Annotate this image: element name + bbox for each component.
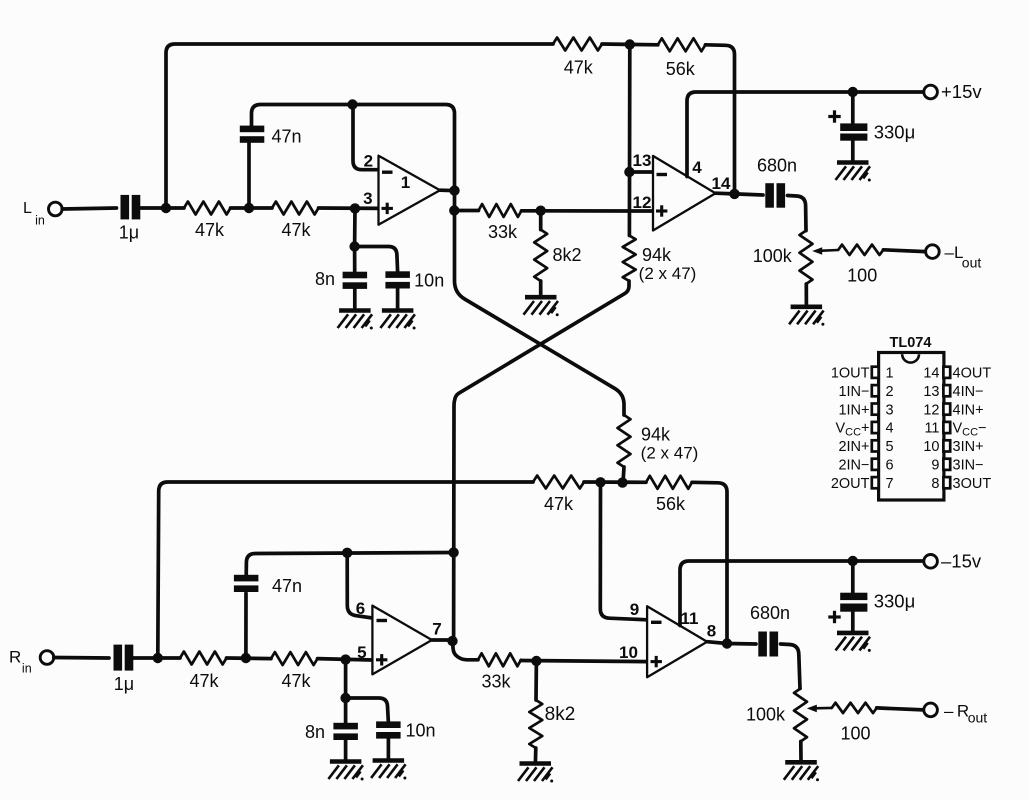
ground below 8k2 L (524, 297, 559, 316)
svg-text:94k: 94k (642, 245, 672, 265)
wire 56k down to output14 (705, 45, 734, 194)
wire between 47k resistors R (227, 656, 272, 660)
wire 680n to pot top (788, 196, 807, 231)
svg-text:10: 10 (619, 643, 638, 662)
wire 8k2 upper lead R (534, 661, 538, 700)
ground below pot L (789, 307, 824, 326)
capacitor 1u (left channel input) (121, 195, 141, 220)
svg-text:33k: 33k (488, 222, 518, 242)
capacitor 330u (top) (840, 123, 867, 140)
potentiometer 100k (R) (794, 689, 807, 742)
junction pin9 tap node (595, 477, 605, 487)
svg-text:94k: 94k (641, 425, 671, 445)
svg-text:in: in (35, 214, 45, 228)
wire 8n-B upper lead (344, 698, 348, 723)
svg-text:47k: 47k (544, 494, 574, 514)
svg-text:330μ: 330μ (874, 122, 916, 143)
svg-text:10n: 10n (405, 721, 435, 741)
svg-text:–15v: –15v (941, 551, 982, 572)
junction output pin7 node (447, 636, 457, 646)
svg-text:3: 3 (363, 189, 372, 208)
svg-text:1IN−: 1IN− (838, 384, 869, 400)
resistor 47k (R input second) (271, 652, 318, 665)
IC pin stub left 7 (872, 477, 879, 488)
resistor 8k2 (L) (534, 230, 547, 281)
capacitor 8n (R) (333, 723, 358, 740)
wire 1u to 47k R (133, 656, 180, 660)
junction 33k tap on output riser (449, 205, 459, 215)
wire 8k2 to ground R (534, 748, 538, 763)
svg-text:12: 12 (633, 193, 652, 212)
svg-text:9: 9 (630, 600, 639, 619)
svg-text:4IN−: 4IN− (953, 384, 984, 400)
wire 47k to 56k top rail (602, 42, 658, 46)
svg-text:100k: 100k (753, 246, 793, 266)
junction 8k2 node R (531, 656, 541, 666)
junction 47n tap node R (241, 653, 251, 663)
ground below pot R (784, 762, 819, 781)
wire 680n-B to pot top (781, 644, 801, 689)
svg-text:–L: –L (945, 243, 964, 262)
resistor 56k (bottom rail) (646, 476, 692, 489)
capacitor 47n (R) (234, 575, 259, 592)
svg-text:R: R (9, 648, 21, 667)
wire 47k to op-amp pin3 (319, 206, 379, 210)
wire pot bottom to ground L (804, 284, 808, 307)
resistor 33k (R) (478, 653, 521, 666)
svg-text:7: 7 (886, 476, 894, 492)
wire 47n-B top to rail toward riser (246, 553, 453, 577)
junction L input node (161, 203, 171, 213)
IC pin stub left 6 (872, 459, 879, 470)
wire 56k down to output8 (692, 482, 727, 643)
svg-text:2IN−: 2IN− (838, 458, 869, 474)
resistor 94k upper (2x47) (623, 236, 636, 282)
wire L_in to 1u cap (62, 208, 116, 209)
op-amp U1A (pins 2,3,1) (379, 156, 441, 225)
wire between 47k resistors (231, 206, 273, 210)
ground below 330u bottom (836, 633, 871, 652)
svg-text:47k: 47k (195, 220, 225, 240)
wire 8n-B to ground (344, 740, 348, 762)
svg-text:L: L (23, 200, 32, 217)
wire 100 to R_out (877, 708, 924, 710)
svg-text:47k: 47k (281, 671, 311, 691)
capacitor 10n (R) (376, 721, 401, 738)
svg-text:47k: 47k (281, 220, 311, 240)
svg-text:3: 3 (886, 402, 894, 418)
wire 47k to op-amp pin5 (318, 659, 373, 660)
potentiometer 100k (L) (800, 231, 813, 284)
wire 8n upper lead (353, 247, 357, 272)
resistor 100 (L) (838, 245, 883, 255)
wire 100 to L_out (883, 250, 925, 252)
op-amp U1D (pins 13,12,14) (653, 156, 716, 231)
wire 8k2 to ground L (539, 281, 543, 297)
svg-text:out: out (968, 710, 988, 726)
IC notch (902, 354, 919, 362)
resistor 47k (bottom rail) (533, 476, 584, 489)
svg-text:100k: 100k (746, 705, 786, 725)
IC pin stub left 3 (872, 404, 879, 415)
svg-text:7: 7 (432, 619, 441, 638)
capacitor 680n (R) (758, 632, 778, 657)
svg-text:6: 6 (886, 458, 894, 474)
wire op-amp2 output (716, 191, 735, 195)
svg-text:2: 2 (364, 152, 373, 171)
polarity + of 330u top (828, 110, 840, 122)
op-amp U1C (pins 9,10,8) (647, 606, 707, 677)
wire pin5 node down to 8n-10n node R (344, 660, 348, 698)
terminal L_out (926, 245, 940, 259)
svg-text:100: 100 (840, 724, 870, 744)
capacitor 330u (bottom) (840, 593, 867, 612)
ground below 8n L (338, 311, 373, 330)
wire output14 to 680n (735, 194, 764, 195)
IC pin stub left 4 (872, 422, 879, 433)
capacitor 680n (L) (765, 183, 785, 208)
svg-text:(2 x 47): (2 x 47) (641, 444, 699, 463)
junction 94k lower node (617, 477, 627, 487)
wire pin3 node down to 8n-10n node (353, 208, 357, 246)
svg-text:33k: 33k (481, 672, 511, 692)
capacitor 10n (L) (385, 271, 410, 288)
junction pin13 node (624, 167, 634, 177)
resistor 47k (R input first) (180, 652, 227, 665)
svg-text:– R: – R (944, 702, 969, 721)
wire 47n-B lower lead (244, 593, 248, 658)
resistor 100 (R) (832, 703, 877, 713)
wire output7 stub to 33k (453, 641, 479, 660)
wire pin4 riser to +15V rail (687, 92, 924, 177)
wire 330u to ground (851, 141, 855, 163)
junction 47n tap node (244, 203, 254, 213)
junction 8k2 node L (536, 206, 546, 216)
wire 94k upper diagonal crossover to lower op-amp output (454, 281, 629, 642)
wire 47k to 56k bottom rail (584, 480, 646, 484)
svg-text:8n: 8n (305, 722, 325, 742)
IC pin stub right 13 (943, 385, 950, 396)
terminal R_in (40, 651, 54, 665)
wiper arrow L (812, 247, 838, 255)
svg-text:11: 11 (924, 421, 939, 437)
svg-text:1OUT: 1OUT (831, 366, 870, 382)
capacitor 47n (L) (240, 126, 264, 143)
wire pot bottom to ground R (799, 742, 803, 761)
IC pin stub right 12 (943, 404, 950, 415)
junction pin6 tap on 47n-B rail (342, 548, 352, 558)
junction pin2 feedback node (347, 99, 357, 109)
junction pin3 node (350, 203, 360, 213)
capacitor 8n (L) (343, 272, 368, 289)
wire output8 to 680n (727, 642, 756, 646)
svg-text:14: 14 (712, 174, 731, 193)
IC body TL074 (879, 353, 944, 501)
svg-text:3IN−: 3IN− (953, 458, 984, 474)
svg-text:47k: 47k (564, 58, 594, 78)
wire pin13 into op-amp (629, 170, 653, 174)
wire branch to 10n (355, 247, 398, 272)
wire 8n to ground (353, 289, 357, 311)
resistor 33k (L) (479, 204, 522, 217)
svg-text:8: 8 (707, 622, 716, 641)
junction 8n/10n node (349, 241, 359, 251)
svg-text:13: 13 (923, 384, 939, 400)
svg-text:100: 100 (847, 266, 877, 286)
svg-text:4: 4 (886, 421, 894, 437)
wire 33k to op-amp pin12 (522, 209, 654, 213)
resistor 94k lower (2x47) (618, 415, 631, 467)
op-amp U1B (pins 6,5,7) (372, 606, 432, 675)
svg-text:5: 5 (357, 643, 366, 662)
svg-text:13: 13 (633, 151, 652, 170)
junction output pin1 node (449, 185, 459, 195)
wire pin2 to feedback rail (353, 105, 379, 170)
wire branch to 10n R (346, 698, 389, 721)
wire -15V to 330u-B (851, 561, 855, 593)
wire 47n top to feedback rail to output (252, 105, 455, 191)
ground below 8k2 R (518, 764, 553, 783)
ground below 10n R (371, 761, 406, 780)
svg-text:1: 1 (886, 366, 894, 382)
junction R input node (153, 653, 163, 663)
wire riser L input node to top rail (166, 44, 553, 208)
svg-text:47n: 47n (272, 576, 302, 596)
ground below 8n R (328, 762, 363, 781)
junction top rail node (625, 39, 635, 49)
svg-text:1: 1 (401, 173, 410, 192)
IC pin stub right 9 (943, 459, 950, 470)
wire output node to 33k (454, 209, 478, 213)
wire 10n-B to ground (387, 739, 391, 761)
wire riser R input node to bottom rail (158, 482, 533, 658)
junction output pin14 node (729, 189, 739, 199)
svg-text:1μ: 1μ (119, 223, 139, 243)
svg-text:2: 2 (886, 384, 894, 400)
svg-text:+15v: +15v (941, 81, 982, 102)
svg-text:4IN+: 4IN+ (953, 402, 984, 418)
svg-text:10n: 10n (414, 270, 444, 290)
terminal L_in (49, 202, 63, 216)
wire 47n lower lead (247, 143, 251, 208)
wire +15V to 330u (851, 92, 855, 123)
svg-text:11: 11 (681, 609, 699, 628)
svg-text:2IN+: 2IN+ (838, 439, 869, 455)
wire op-amp3 output (432, 638, 453, 642)
svg-text:TL074: TL074 (890, 335, 932, 351)
svg-text:out: out (962, 255, 982, 271)
svg-text:330μ: 330μ (874, 591, 916, 612)
svg-text:8k2: 8k2 (545, 704, 576, 725)
wire op-amp4 output (707, 642, 727, 644)
wire R_in to 1u cap (54, 656, 109, 660)
wire 33k to op-amp pin10 (521, 661, 647, 662)
svg-text:14: 14 (923, 366, 939, 382)
svg-text:10: 10 (923, 439, 939, 455)
svg-text:56k: 56k (656, 494, 686, 514)
resistor 56k (top rail) (658, 38, 706, 51)
capacitor 1u (right channel input) (114, 645, 134, 671)
svg-text:9: 9 (931, 458, 939, 474)
terminal +15V (924, 85, 938, 99)
svg-text:47k: 47k (189, 671, 219, 691)
wire 8k2 upper lead L (539, 211, 543, 230)
svg-text:in: in (22, 662, 32, 676)
resistor 47k (L input second) (272, 202, 319, 215)
svg-text:8k2: 8k2 (552, 245, 581, 265)
wire pin6 riser (347, 553, 372, 618)
svg-text:8: 8 (931, 476, 939, 492)
ground below 330u top (836, 163, 871, 182)
polarity + of 330u bottom (828, 611, 840, 623)
svg-text:56k: 56k (666, 59, 696, 79)
junction 330u tap +15V (848, 87, 858, 97)
wire 94k lower to bottom rail (623, 467, 624, 483)
IC pin stub left 1 (872, 367, 879, 378)
IC pin stub right 14 (943, 367, 950, 378)
resistor 47k (L input first) (184, 202, 231, 215)
wire 10n to ground (396, 288, 400, 310)
svg-text:(2 x 47): (2 x 47) (639, 264, 697, 283)
resistor 8k2 (R) (529, 700, 542, 748)
wire 1u to 47k (140, 206, 184, 210)
terminal -15V (924, 555, 938, 569)
IC pin stub right 8 (943, 477, 950, 488)
svg-text:2OUT: 2OUT (831, 476, 870, 492)
svg-text:5: 5 (886, 439, 894, 455)
IC pin stub right 11 (943, 422, 950, 433)
svg-text:47n: 47n (271, 127, 301, 147)
svg-text:6: 6 (356, 599, 365, 618)
wire 330u-B to ground (851, 612, 855, 633)
IC pin stub right 10 (943, 440, 950, 451)
junction 47n-B rail on riser (448, 547, 458, 557)
svg-text:8n: 8n (315, 269, 335, 289)
svg-text:3OUT: 3OUT (953, 476, 992, 492)
svg-text:3IN+: 3IN+ (953, 439, 984, 455)
svg-text:4: 4 (692, 158, 702, 177)
junction pin5 node (340, 654, 350, 664)
wire pin11 riser to -15V rail (680, 561, 924, 626)
svg-text:680n: 680n (750, 603, 790, 623)
junction 8n/10n node R (340, 693, 350, 703)
wire output1 down and diagonal to lower 94k (455, 191, 625, 415)
junction 330u tap -15V (848, 556, 858, 566)
junction output pin8 node (722, 638, 732, 648)
wire pin9 riser (600, 482, 647, 620)
svg-text:1IN+: 1IN+ (838, 402, 869, 418)
wire op-amp1 output (440, 188, 455, 192)
svg-text:4OUT: 4OUT (953, 366, 992, 382)
IC pin stub left 5 (872, 440, 879, 451)
svg-text:1μ: 1μ (114, 674, 134, 694)
wiper arrow R (807, 705, 832, 713)
terminal R_out (924, 703, 938, 717)
svg-text:12: 12 (923, 402, 939, 418)
svg-text:680n: 680n (757, 156, 797, 176)
ground below 10n L (380, 311, 415, 330)
wire top rail node down to pin13 and 94k (628, 45, 632, 236)
resistor 47k (top rail) (553, 38, 602, 51)
IC pin stub left 2 (872, 385, 879, 396)
